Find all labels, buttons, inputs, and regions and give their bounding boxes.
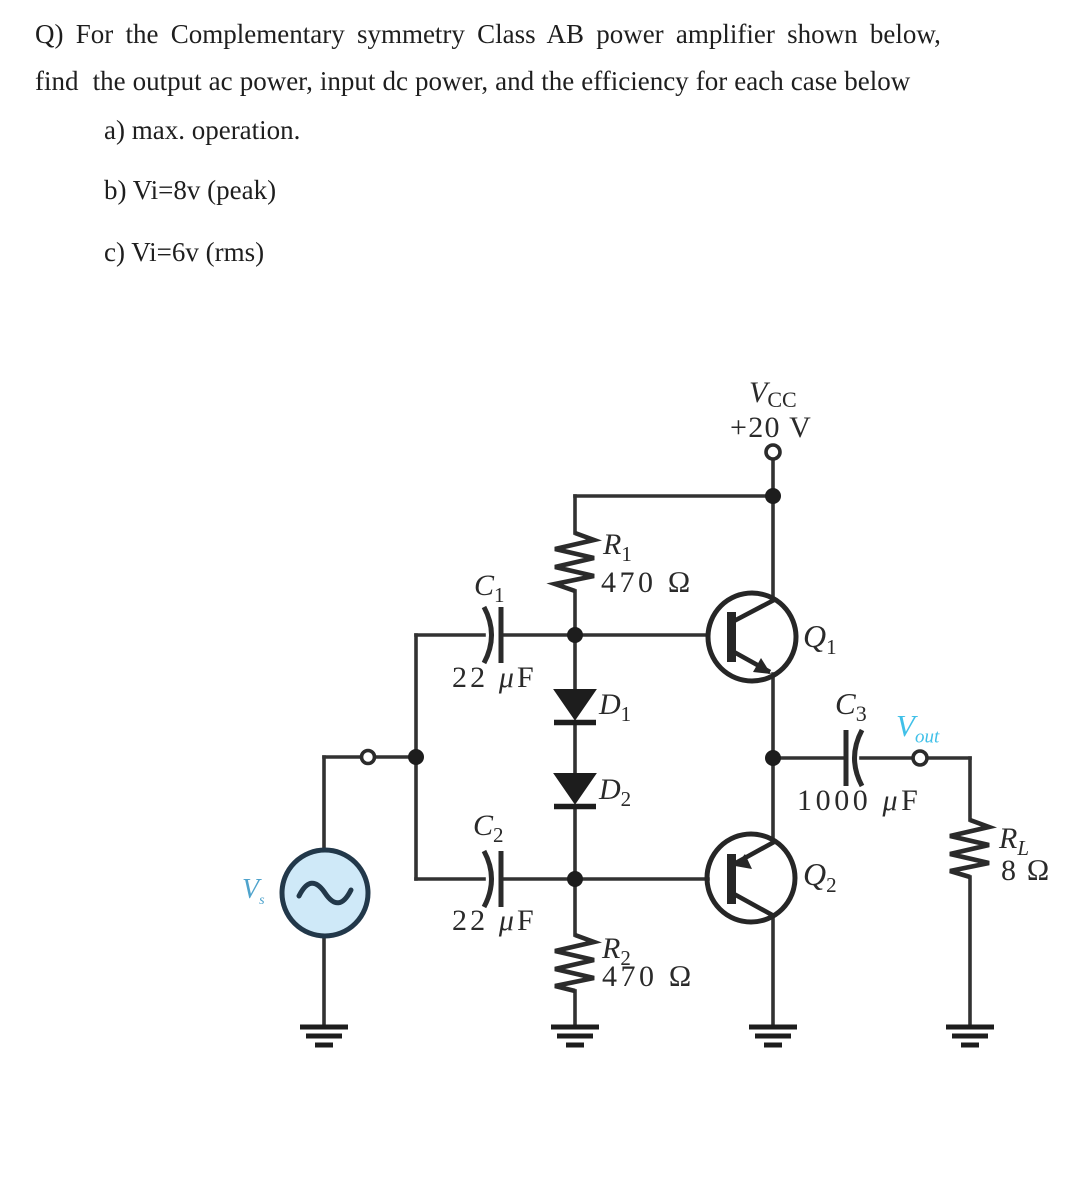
svg-text:Vout: Vout: [896, 708, 940, 748]
svg-text:D1: D1: [598, 688, 631, 726]
svg-text:Q2: Q2: [803, 856, 837, 897]
svg-text:+20 V: +20 V: [730, 411, 812, 444]
svg-text:8 Ω: 8 Ω: [1001, 854, 1051, 887]
svg-text:470 Ω: 470 Ω: [602, 960, 695, 993]
svg-text:1000 μF: 1000 μF: [797, 784, 921, 817]
svg-text:470 Ω: 470 Ω: [601, 566, 694, 599]
svg-text:VCC: VCC: [749, 376, 797, 412]
svg-text:Q1: Q1: [803, 618, 837, 659]
svg-text:22 μF: 22 μF: [452, 904, 537, 937]
svg-text:C1: C1: [474, 569, 505, 607]
svg-text:R1: R1: [602, 528, 632, 566]
svg-text:C3: C3: [835, 686, 867, 726]
svg-text:D2: D2: [598, 773, 631, 811]
svg-text:Vs: Vs: [242, 874, 265, 908]
svg-text:C2: C2: [473, 809, 504, 847]
svg-text:22 μF: 22 μF: [452, 661, 537, 694]
